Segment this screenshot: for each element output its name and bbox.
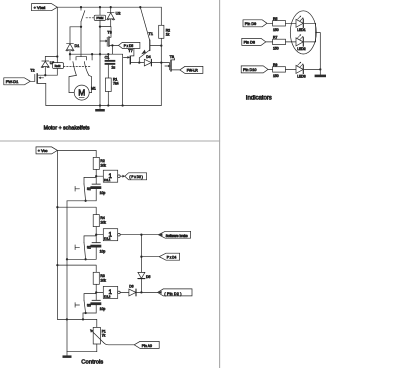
wire block2 low: [67, 258, 96, 260]
wire to flag: [112, 44, 118, 46]
inverter IC1.1: [103, 170, 125, 182]
node out3: [140, 291, 142, 293]
svg-text:10p: 10p: [100, 249, 106, 253]
diode D1: [66, 27, 81, 54]
inverter IC1.3: [103, 286, 129, 298]
net flag P x D2: [125, 173, 147, 180]
wire drop to pot feed: [82, 313, 84, 319]
svg-text:1u: 1u: [111, 66, 115, 70]
wire cathode link: [315, 23, 317, 42]
svg-text:R5: R5: [273, 17, 277, 21]
section divider vertical: [219, 0, 221, 368]
svg-text:IC1.2: IC1.2: [104, 237, 111, 241]
resistor R9: [273, 63, 296, 78]
svg-text:U2: U2: [116, 12, 121, 16]
wire coil return: [99, 27, 101, 106]
svg-text:D1: D1: [75, 44, 80, 48]
LED LED2: [296, 34, 316, 50]
svg-text:R4: R4: [100, 216, 104, 220]
svg-text:Pin D9: Pin D9: [245, 22, 256, 26]
wire to flag: [141, 256, 159, 258]
net flag Pin D8: [242, 38, 273, 45]
capacitor C1: [105, 54, 116, 78]
svg-text:( Pin D2 ): ( Pin D2 ): [164, 292, 181, 296]
potentiometer P1: [90, 327, 134, 351]
diode U1: [41, 57, 55, 76]
wire bottom rail: [46, 105, 162, 107]
LED pair ellipse: [290, 11, 316, 54]
svg-text:P x D4: P x D4: [167, 256, 177, 260]
svg-text:150: 150: [273, 47, 279, 51]
zener diode U2: [107, 7, 121, 26]
diode D6: [129, 284, 158, 296]
svg-text:FW-D1: FW-D1: [6, 79, 19, 84]
svg-text:R7: R7: [273, 35, 277, 39]
relay coil PWM: [94, 7, 105, 26]
node base / R2: [160, 44, 162, 46]
wire feed block 2: [57, 207, 96, 214]
node diode out: [160, 61, 162, 63]
svg-text:D5: D5: [146, 275, 150, 279]
LED LED1: [296, 16, 316, 32]
capacitor C3: [90, 242, 105, 259]
node out2: [140, 234, 142, 236]
wire to block 1: [57, 150, 96, 157]
power flag +Vcc: [36, 147, 57, 154]
wire Vbat drop: [56, 7, 58, 56]
svg-text:R9: R9: [273, 63, 277, 67]
svg-text:S1: S1: [87, 187, 91, 191]
svg-text:Software brake: Software brake: [166, 234, 188, 238]
ground controls: [63, 352, 72, 358]
switch S1: [75, 177, 96, 200]
svg-text:1k: 1k: [166, 33, 170, 37]
svg-text:P x D5: P x D5: [124, 44, 134, 48]
svg-text:+ Vcc: + Vcc: [38, 149, 48, 153]
wire gate bus y54: [70, 53, 123, 55]
wire to ground drop: [316, 33, 321, 75]
svg-text:Indicators: Indicators: [246, 96, 272, 102]
svg-text:Pin D8: Pin D8: [244, 41, 255, 45]
switch S3: [75, 294, 96, 313]
node T3 source: [111, 44, 113, 46]
svg-text:T8: T8: [170, 55, 174, 59]
svg-text:10k: 10k: [100, 278, 106, 282]
svg-text:T7: T7: [128, 49, 132, 53]
net flag Pin D10: [241, 66, 272, 73]
svg-text:PWM: PWM: [96, 16, 104, 20]
transistor T1: [139, 7, 161, 62]
wire pot return: [67, 351, 97, 353]
resistor R2: [159, 7, 170, 105]
svg-text:FW-LR: FW-LR: [187, 69, 198, 73]
svg-text:T2: T2: [30, 69, 34, 73]
node emitter: [138, 61, 140, 63]
inverter IC1.2: [103, 229, 158, 241]
wire block1 low: [67, 200, 96, 202]
svg-text:( P x D2 ): ( P x D2 ): [129, 175, 142, 179]
svg-text:Motor + schakelfets: Motor + schakelfets: [44, 125, 90, 131]
diode D4: [144, 55, 161, 66]
svg-text:IC1.1: IC1.1: [104, 178, 111, 182]
diode D5: [138, 272, 151, 292]
motor M1: [74, 85, 96, 100]
transistor T3: [100, 27, 112, 47]
svg-text:S2: S2: [87, 246, 91, 250]
svg-text:7k4: 7k4: [113, 82, 119, 86]
svg-text:Pin A0: Pin A0: [142, 344, 152, 348]
switch S2: [75, 236, 96, 259]
resistor R4: [93, 215, 106, 243]
transistor T8: [161, 55, 180, 72]
wire pot feed: [57, 319, 96, 327]
relay coil Rel2: [53, 57, 90, 76]
svg-text:10p: 10p: [100, 307, 106, 311]
node block3 input: [95, 291, 97, 293]
node U1 bottom: [44, 74, 46, 76]
net flag Pin D9: [243, 20, 273, 27]
net flag FW-D1: [4, 78, 31, 85]
wire flag to gate: [30, 80, 35, 82]
wire block3 low: [83, 312, 96, 314]
svg-text:R3: R3: [100, 274, 104, 278]
resistor R5: [273, 17, 296, 32]
section divider horizontal: [0, 140, 220, 142]
ground indicators: [315, 75, 326, 78]
svg-text:150: 150: [273, 74, 279, 78]
svg-text:T1: T1: [149, 32, 153, 36]
svg-text:Pin D10: Pin D10: [243, 68, 257, 72]
wire to IC2: [96, 234, 103, 236]
svg-text:+ Vbat: + Vbat: [34, 5, 47, 10]
wire source drop: [111, 45, 113, 54]
svg-text:S3: S3: [87, 303, 91, 307]
svg-text:M: M: [78, 88, 85, 98]
node block2 input: [95, 234, 97, 236]
net flag P x D4: [159, 253, 179, 260]
wire switch rail: [66, 201, 68, 352]
svg-text:D4: D4: [146, 55, 150, 59]
svg-text:10p: 10p: [100, 191, 106, 195]
capacitor C2: [90, 184, 105, 201]
wire to IC3: [96, 291, 103, 293]
wire source to rail: [45, 84, 47, 106]
svg-text:10k: 10k: [100, 221, 106, 225]
svg-text:M1: M1: [91, 86, 96, 90]
power flag +Vbat: [32, 4, 58, 11]
capacitor C4: [90, 300, 105, 313]
svg-text:Rel2: Rel2: [55, 64, 61, 68]
net flag FW-LR: [180, 66, 203, 73]
transistor T2: [30, 69, 57, 84]
resistor R2b: [93, 157, 106, 183]
svg-text:10k: 10k: [100, 163, 106, 167]
net flag Pin A0: [134, 341, 159, 348]
net flag Pin D2: [158, 289, 192, 296]
node block1 input: [95, 175, 97, 177]
wire feed block 3: [57, 265, 96, 272]
svg-text:Controls: Controls: [81, 360, 103, 366]
relay contact K1 (top switch): [80, 7, 94, 28]
resistor R3: [93, 272, 106, 300]
svg-text:IC1.3: IC1.3: [104, 294, 111, 298]
svg-text:150: 150: [273, 28, 279, 32]
net flag P x D5: [119, 42, 140, 48]
svg-text:R2: R2: [100, 159, 104, 163]
wire coil bottom: [100, 26, 111, 28]
svg-text:LED1: LED1: [297, 28, 306, 32]
wire Vbat node: [45, 56, 57, 58]
svg-text:LED2: LED2: [297, 47, 306, 51]
net flag Software brake: [158, 231, 190, 238]
resistor R7: [273, 35, 296, 50]
transistor T7: [123, 49, 145, 106]
ground motor section: [95, 106, 105, 112]
wire top rail: [57, 6, 161, 8]
node junctions top rail: [80, 6, 142, 8]
node ground drop: [319, 68, 321, 70]
wire out2 drop: [140, 235, 142, 257]
resistor R1: [105, 77, 118, 105]
wire Vcc rail: [56, 150, 58, 319]
svg-text:D6: D6: [129, 284, 133, 288]
relay contacts K2 (DPDT): [69, 27, 92, 93]
svg-text:7k: 7k: [102, 334, 106, 338]
LED LED3: [296, 62, 320, 78]
svg-text:LED3: LED3: [297, 74, 306, 78]
node rail feeds: [56, 206, 58, 266]
wire to IC1: [96, 175, 103, 177]
